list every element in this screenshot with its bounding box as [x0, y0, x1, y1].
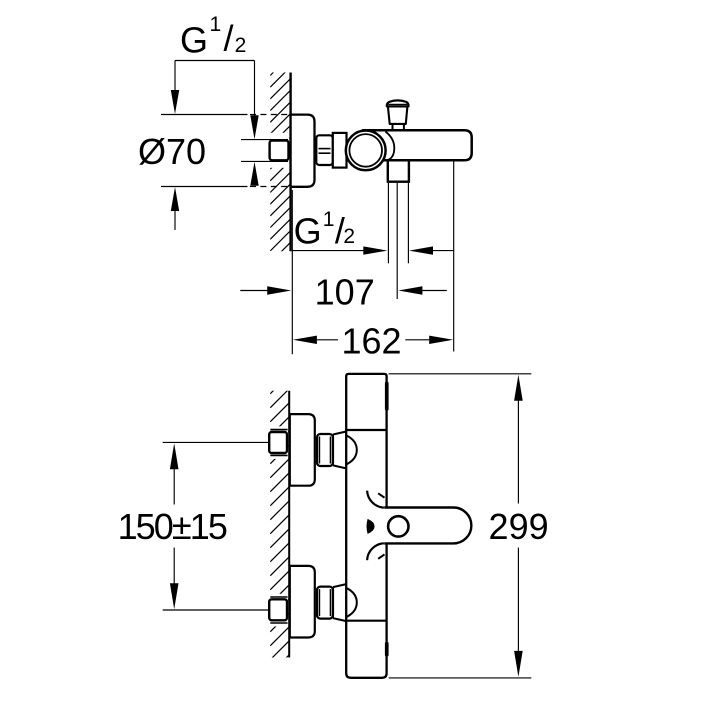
extension line outlet centerline [396, 183, 398, 299]
svg-text:162: 162 [341, 321, 401, 362]
svg-text:107: 107 [315, 272, 375, 313]
extension line outlet right [407, 183, 409, 263]
dimension G 1/2 outlet left arrow [292, 250, 364, 252]
extension line spout end [453, 161, 455, 352]
tick pipe bottom edge [241, 160, 288, 162]
wall face line (side view) [289, 73, 291, 252]
spout root curve bottom [367, 543, 384, 560]
lower pipe nipple flange ticks [270, 596, 287, 598]
lower grip mark on body edge [385, 642, 389, 657]
upper union nut (plan view) [317, 434, 333, 466]
dimension 299 line upper [517, 399, 519, 504]
svg-text:G: G [294, 210, 322, 251]
pipe nipple in wall (side view) [270, 141, 289, 161]
extension line body top (299) [389, 373, 532, 375]
upper grip mark on body edge [385, 382, 389, 411]
svg-text:150±15: 150±15 [118, 506, 227, 547]
hatch clearance around pipes (plan view) [269, 426, 288, 459]
extension line lower pipe centerline [163, 609, 270, 611]
label G 1/2 (wall connection, top) [180, 13, 246, 60]
svg-text:2: 2 [343, 225, 355, 248]
wall hatching (plan view) [270, 375, 289, 674]
upper union boss arc on body [347, 436, 357, 465]
svg-text:Ø70: Ø70 [138, 131, 206, 172]
body end curve at valve (side view) [385, 132, 394, 161]
dimension 150 line lower [173, 548, 175, 585]
label G 1/2 (shower outlet) [294, 208, 355, 251]
dimension 107 left arrow [240, 290, 268, 292]
lower pipe nipple in wall (plan view) [269, 599, 287, 620]
dimension 107 right arrow [398, 286, 422, 294]
dimension 299 line lower [517, 548, 519, 653]
svg-text:1: 1 [323, 208, 335, 231]
extension line escutcheon top edge [161, 114, 248, 116]
lower adapter cone (plan view) [333, 584, 346, 621]
union nut (side view) [316, 135, 333, 165]
lower escutcheon (plan view) [290, 566, 315, 638]
hatch clearance around pipe (side view) [269, 133, 289, 168]
diverter knob cap (side view) [387, 100, 409, 106]
faucet body (plan view) [346, 374, 386, 678]
connection shank (side view) [333, 133, 347, 168]
thermostat valve cap inner circle (side view) [349, 134, 382, 167]
upper adapter cone (plan view) [333, 432, 346, 469]
arrow to escutcheon bottom edge [174, 208, 176, 230]
svg-text:299: 299 [489, 506, 549, 547]
body bottom cap parting line [346, 620, 386, 622]
shower outlet block (side view) [388, 160, 409, 181]
spout root tick top [378, 493, 384, 497]
thermostat valve cap outer circle (side view) [346, 131, 386, 171]
escutcheon (side view) [291, 115, 315, 187]
svg-text:/: / [224, 18, 234, 59]
extension line escutcheon bottom edge [161, 186, 248, 188]
body spout bar (side view) [362, 130, 472, 160]
arrow to escutcheon top edge [174, 61, 176, 93]
spout root curve top [367, 491, 384, 508]
spout (plan view) [384, 508, 471, 544]
safety stop button (plan view) [367, 519, 375, 534]
wall hatching (side view) [270, 55, 290, 263]
arrow to pipe top edge [254, 61, 256, 118]
body top cap parting line [346, 429, 386, 431]
upper pipe nipple in wall (plan view) [269, 432, 287, 453]
tick pipe top edge [241, 139, 288, 141]
extension line wall face (dims) [291, 190, 293, 354]
upper pipe nipple flange ticks [270, 429, 287, 431]
upper escutcheon (plan view) [290, 414, 315, 486]
wall face line (plan view) [288, 391, 290, 658]
extension line outlet left [387, 183, 389, 263]
extension line body bottom (299) [389, 677, 532, 679]
svg-text:2: 2 [235, 34, 247, 57]
svg-text:1: 1 [210, 13, 222, 36]
lower union nut (plan view) [317, 587, 333, 619]
diverter knob stem (side view) [392, 124, 394, 130]
dimension 162 left arrow [293, 336, 317, 344]
spout root tick bottom [378, 554, 384, 558]
arrow to pipe bottom edge [250, 162, 258, 186]
dimension 150 line upper [173, 468, 175, 505]
dimension 162 right arrow [405, 339, 429, 341]
svg-text:G: G [180, 19, 208, 60]
spout outlet circle (plan view) [388, 516, 408, 536]
dimension line G 1/2 top [175, 60, 255, 62]
dimension G 1/2 outlet right arrow [409, 246, 433, 254]
lower union boss arc on body [347, 588, 357, 617]
diverter knob neck (side view) [388, 106, 408, 124]
extension line upper pipe centerline [163, 441, 270, 443]
